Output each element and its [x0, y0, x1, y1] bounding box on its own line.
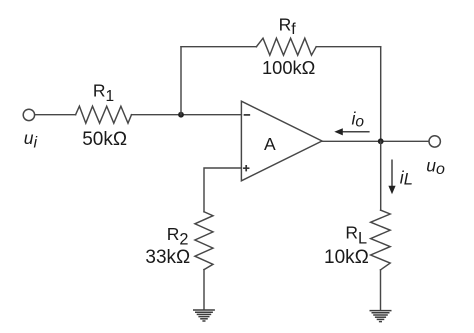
wire junction up to feedback: [180, 47, 182, 115]
input terminal circle: [23, 109, 34, 120]
op-amp minus input symbol: [245, 114, 250, 116]
resistor RL zigzag: [371, 210, 391, 270]
op-amp plus input symbol: [244, 166, 249, 171]
wire right vertical feedback down to output node: [380, 47, 382, 142]
wire RL to ground: [380, 270, 382, 310]
wire R1 to op-amp inverting input: [132, 114, 242, 116]
node output junction dot: [378, 138, 384, 144]
wire top left to Rf: [181, 46, 256, 48]
svg-text:10kΩ: 10kΩ: [324, 247, 369, 268]
resistor R2 zigzag: [195, 212, 213, 270]
svg-text:uo: uo: [426, 155, 445, 178]
output terminal circle: [429, 136, 440, 147]
node junction dot at inverting input: [178, 112, 184, 118]
svg-text:A: A: [264, 134, 276, 154]
resistor Rf zigzag: [256, 38, 316, 55]
ground symbol right: [370, 311, 392, 322]
svg-text:RL: RL: [345, 223, 367, 248]
svg-text:R1: R1: [93, 81, 114, 105]
wire Rf to right vertical: [316, 46, 381, 48]
svg-text:Rf: Rf: [279, 14, 297, 38]
svg-text:io: io: [352, 108, 365, 130]
op-amp U triangle: [241, 101, 322, 181]
svg-text:R2: R2: [167, 224, 189, 249]
current arrow io: [334, 128, 369, 135]
svg-text:ui: ui: [24, 128, 38, 152]
wire op-amp output: [322, 140, 428, 142]
wire plus input to R2: [204, 168, 241, 212]
wire output node down to RL: [380, 141, 382, 210]
wire R2 to ground: [203, 270, 205, 310]
svg-text:33kΩ: 33kΩ: [145, 247, 190, 268]
svg-text:iL: iL: [400, 167, 413, 188]
svg-text:100kΩ: 100kΩ: [262, 57, 315, 78]
wire input to R1: [35, 114, 76, 116]
current arrow iL: [388, 160, 395, 195]
svg-text:50kΩ: 50kΩ: [82, 129, 127, 150]
ground symbol left: [193, 310, 215, 321]
resistor R1 zigzag: [76, 106, 132, 123]
